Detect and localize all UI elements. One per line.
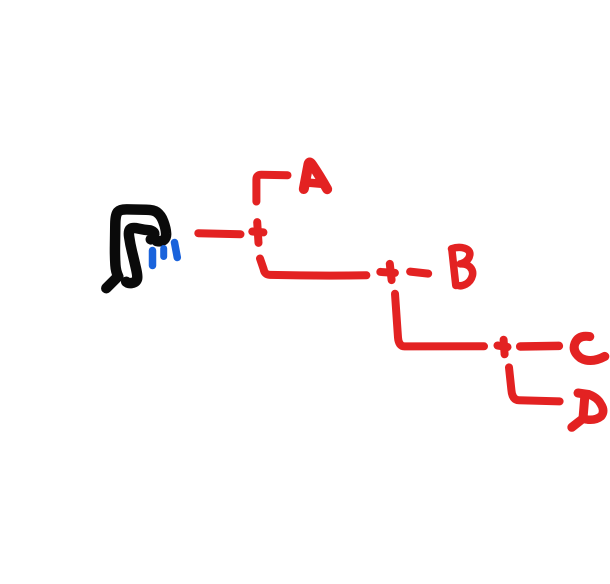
blue tick mark 1 <box>149 251 157 266</box>
junction 1 plus: vertical <box>257 222 258 243</box>
wire: step down from junction 1 to junction 2 <box>260 259 366 276</box>
wire elbow up to node A <box>256 175 287 202</box>
junction 3 plus: vertical <box>504 340 505 355</box>
red wire: dash from glyph to junction 1 <box>198 233 240 234</box>
junction 3 plus: horizontal <box>498 346 508 348</box>
hand-drawn black glyph inner hook stroke <box>126 228 154 283</box>
wire dash to node C <box>520 342 559 351</box>
hand-drawn black glyph outer stroke <box>106 209 166 288</box>
blue tick mark 2 <box>160 249 167 257</box>
node label C <box>574 336 605 360</box>
junction 2 plus: horizontal <box>380 272 395 273</box>
wire: step down from junction 2 to junction 3 <box>395 294 484 347</box>
junction 2 plus: vertical <box>390 264 392 280</box>
junction 1 plus: horizontal <box>252 228 263 237</box>
blue tick mark 3 <box>175 243 178 258</box>
wire: step down from junction 3 to node D <box>509 367 560 401</box>
node label A <box>304 162 327 189</box>
node label D <box>578 393 589 395</box>
wire dash to node B <box>410 272 428 274</box>
node label B <box>452 249 456 286</box>
